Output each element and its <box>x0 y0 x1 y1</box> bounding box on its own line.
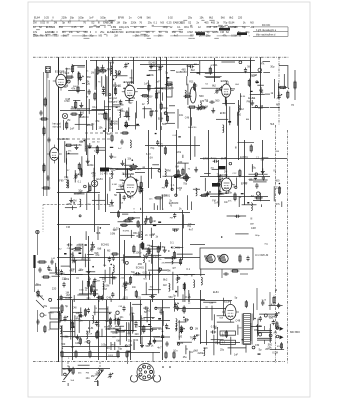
svg-text:2M: 2M <box>233 186 236 188</box>
svg-text:C48: C48 <box>251 226 256 230</box>
svg-text:FM: FM <box>212 201 215 203</box>
svg-text:AM: AM <box>78 269 81 272</box>
svg-text:70p: 70p <box>223 22 228 25</box>
svg-text:6k8: 6k8 <box>145 246 150 250</box>
svg-text:EABC80: EABC80 <box>176 70 187 74</box>
svg-text:FM: FM <box>170 218 173 220</box>
svg-text:EF89: EF89 <box>94 322 100 324</box>
svg-text:0.1: 0.1 <box>170 240 174 244</box>
svg-text:M3: M3 <box>99 35 103 38</box>
svg-text:30p: 30p <box>78 189 83 193</box>
svg-text:47k: 47k <box>95 119 100 123</box>
svg-text:FM: FM <box>43 315 46 317</box>
svg-text:AM: AM <box>163 284 167 287</box>
svg-text:30p: 30p <box>123 22 128 25</box>
svg-text:1nF: 1nF <box>89 17 94 20</box>
svg-text:1nF: 1nF <box>275 324 280 328</box>
svg-text:560: 560 <box>54 35 59 38</box>
svg-text:220: 220 <box>238 17 243 20</box>
svg-text:M3: M3 <box>160 22 164 25</box>
svg-text:30p: 30p <box>270 66 275 69</box>
svg-text:0.5M: 0.5M <box>272 352 278 355</box>
svg-text:6k8: 6k8 <box>194 348 199 352</box>
svg-text:22k 1nF: 22k 1nF <box>110 169 119 171</box>
svg-text:25u: 25u <box>206 35 211 38</box>
svg-text:EF89: EF89 <box>113 31 120 34</box>
svg-text:R31: R31 <box>136 295 141 299</box>
svg-text:III: III <box>98 22 100 25</box>
svg-text:10n: 10n <box>228 191 233 195</box>
svg-text:1013: 1013 <box>108 355 114 357</box>
svg-text:220: 220 <box>178 160 183 164</box>
svg-text:220k: 220k <box>64 278 70 281</box>
svg-text:125: 125 <box>181 22 186 25</box>
svg-text:0.1: 0.1 <box>186 267 190 271</box>
svg-text:0.25: 0.25 <box>167 22 172 25</box>
svg-text:ECH81: ECH81 <box>136 267 145 270</box>
svg-text:C48: C48 <box>75 343 80 345</box>
svg-text:465: 465 <box>211 22 216 25</box>
svg-text:100p: 100p <box>79 290 85 292</box>
svg-text:5k6: 5k6 <box>270 123 275 126</box>
svg-text:R31: R31 <box>189 82 194 84</box>
svg-text:EL84: EL84 <box>176 186 183 190</box>
svg-text:EABC80: EABC80 <box>123 172 135 176</box>
svg-text:0.5M: 0.5M <box>64 101 69 103</box>
svg-text:M3: M3 <box>62 31 66 34</box>
svg-text:4n7: 4n7 <box>174 35 179 38</box>
svg-text:220k: 220k <box>109 205 115 208</box>
svg-text:1nF: 1nF <box>152 219 157 223</box>
svg-text:30p: 30p <box>76 311 81 315</box>
svg-text:EL84: EL84 <box>88 328 94 330</box>
svg-text:EABC80: EABC80 <box>79 116 89 119</box>
svg-text:C48: C48 <box>138 17 143 20</box>
svg-text:560: 560 <box>109 172 114 176</box>
svg-text:EL84: EL84 <box>229 22 235 25</box>
svg-text:1M: 1M <box>195 329 198 331</box>
svg-text:560: 560 <box>215 100 220 103</box>
svg-text:M3: M3 <box>250 22 254 25</box>
svg-text:III: III <box>76 276 78 280</box>
svg-text:bfde nachtscfhes d: bfde nachtscfhes d <box>256 33 276 36</box>
svg-text:8k2: 8k2 <box>163 277 168 281</box>
svg-text:C48: C48 <box>207 26 212 29</box>
svg-text:70p: 70p <box>183 183 188 186</box>
svg-text:ECH81: ECH81 <box>101 244 110 247</box>
svg-text:100p: 100p <box>78 17 84 20</box>
svg-text:FM: FM <box>40 35 44 38</box>
svg-text:FM: FM <box>247 101 251 104</box>
svg-text:220k: 220k <box>131 22 137 25</box>
svg-text:0.02: 0.02 <box>149 234 154 237</box>
svg-text:1M: 1M <box>117 22 120 25</box>
svg-text:0.5M: 0.5M <box>110 234 115 236</box>
svg-text:560: 560 <box>172 31 177 34</box>
svg-text:ECH81: ECH81 <box>123 284 131 286</box>
svg-text:10n: 10n <box>71 268 76 271</box>
svg-text:5k6: 5k6 <box>147 17 152 20</box>
svg-text:III: III <box>111 22 113 25</box>
svg-text:AM: AM <box>175 166 179 169</box>
svg-text:AM: AM <box>49 269 52 272</box>
svg-text:FM: FM <box>167 170 170 173</box>
svg-text:M3: M3 <box>52 26 56 29</box>
svg-text:4n7: 4n7 <box>189 228 194 232</box>
svg-text:EL84: EL84 <box>35 283 42 287</box>
svg-text:5k6: 5k6 <box>221 17 226 20</box>
svg-text:220: 220 <box>135 333 140 336</box>
svg-text:0.02: 0.02 <box>40 22 45 25</box>
svg-text:0.1: 0.1 <box>177 26 181 29</box>
svg-text:EF89: EF89 <box>220 173 228 177</box>
svg-text:R31: R31 <box>213 63 218 67</box>
svg-text:25u: 25u <box>220 349 225 352</box>
svg-text:100p: 100p <box>144 35 150 38</box>
svg-text:AM: AM <box>96 26 100 29</box>
svg-text:5k6: 5k6 <box>63 35 68 38</box>
svg-text:47k: 47k <box>95 253 100 257</box>
svg-text:4:1 OM LM: 4:1 OM LM <box>255 253 269 257</box>
svg-text:4n7: 4n7 <box>157 346 162 350</box>
svg-text:465: 465 <box>213 26 218 29</box>
svg-text:560: 560 <box>275 179 280 183</box>
svg-text:70p: 70p <box>242 26 247 29</box>
svg-text:0.5M: 0.5M <box>112 184 117 186</box>
svg-text:III: III <box>235 145 237 149</box>
svg-text:0.5M: 0.5M <box>95 281 100 283</box>
svg-text:76: 76 <box>190 335 193 339</box>
svg-text:0.1 470: 0.1 470 <box>100 174 108 176</box>
svg-text:III: III <box>250 218 252 221</box>
svg-text:560: 560 <box>199 94 204 98</box>
svg-text:220: 220 <box>52 287 57 291</box>
svg-text:EABC80: EABC80 <box>60 138 70 141</box>
svg-text:FM: FM <box>196 334 200 337</box>
svg-text:EL84: EL84 <box>97 177 104 181</box>
svg-text:AM: AM <box>274 332 278 335</box>
svg-text:FM: FM <box>86 372 89 374</box>
svg-text:AM: AM <box>250 223 253 226</box>
svg-text:ECH81: ECH81 <box>124 80 134 84</box>
svg-text:S2: S2 <box>251 194 255 198</box>
svg-text:1nF: 1nF <box>70 127 75 131</box>
svg-text:0.5M: 0.5M <box>113 333 118 335</box>
svg-text:30p: 30p <box>89 35 94 38</box>
svg-text:stor gnd: stor gnd <box>108 100 118 104</box>
svg-text:EL84: EL84 <box>240 96 246 98</box>
svg-text:25u: 25u <box>100 31 105 34</box>
svg-text:2M: 2M <box>73 199 76 202</box>
svg-text:0.25: 0.25 <box>72 26 77 29</box>
svg-text:0.25: 0.25 <box>44 17 49 20</box>
svg-text:5k6: 5k6 <box>146 31 151 34</box>
svg-text:560: 560 <box>162 122 167 126</box>
svg-text:100p: 100p <box>135 250 141 254</box>
svg-text:10n: 10n <box>179 113 184 117</box>
svg-text:III: III <box>273 168 275 172</box>
svg-text:465: 465 <box>138 263 143 266</box>
svg-text:220k: 220k <box>33 35 39 38</box>
svg-text:30p: 30p <box>70 17 75 20</box>
svg-text:2M: 2M <box>135 35 138 38</box>
svg-text:0.5M: 0.5M <box>98 113 104 116</box>
svg-text:har gnd: har gnd <box>108 96 117 100</box>
svg-text:100p: 100p <box>255 235 261 237</box>
svg-text:ECC85: ECC85 <box>55 69 65 73</box>
svg-text:1M: 1M <box>88 279 91 281</box>
svg-text:b gfh cdesadeghc a: b gfh cdesadeghc a <box>256 30 277 32</box>
svg-text:ECH81: ECH81 <box>123 231 131 233</box>
svg-text:M3: M3 <box>276 104 280 107</box>
svg-text:6k8: 6k8 <box>96 231 101 235</box>
svg-text:EL84: EL84 <box>224 299 231 303</box>
svg-text:25u: 25u <box>82 35 87 38</box>
svg-text:47k: 47k <box>165 84 170 88</box>
svg-text:2M: 2M <box>114 35 117 38</box>
svg-text:ECH81: ECH81 <box>113 83 122 87</box>
svg-text:560: 560 <box>169 296 174 299</box>
svg-text:1nF: 1nF <box>234 353 239 356</box>
svg-text:1M: 1M <box>33 22 36 25</box>
svg-text:EL84: EL84 <box>202 104 209 108</box>
svg-text:1nF: 1nF <box>65 73 70 75</box>
svg-text:AM: AM <box>140 26 144 29</box>
svg-text:15k: 15k <box>267 345 272 349</box>
svg-text:AM: AM <box>106 118 110 122</box>
svg-text:R31: R31 <box>133 232 138 235</box>
svg-text:0.1: 0.1 <box>154 22 158 25</box>
svg-text:70p: 70p <box>131 271 136 274</box>
svg-text:560: 560 <box>59 26 64 29</box>
svg-text:C48: C48 <box>185 117 190 119</box>
svg-text:2M: 2M <box>67 120 70 122</box>
svg-text:0.5M: 0.5M <box>134 31 140 34</box>
svg-text:0.02: 0.02 <box>168 17 173 20</box>
svg-text:EABC80: EABC80 <box>169 202 179 205</box>
svg-text:EF89: EF89 <box>118 17 125 20</box>
svg-text:0.5M: 0.5M <box>187 31 193 34</box>
svg-text:EF89: EF89 <box>48 313 54 315</box>
svg-text:R31: R31 <box>184 26 189 29</box>
svg-text:C12: C12 <box>239 107 244 111</box>
svg-text:EF89: EF89 <box>220 113 226 115</box>
svg-text:560: 560 <box>84 31 89 34</box>
svg-text:EL84: EL84 <box>213 31 219 34</box>
svg-text:R31: R31 <box>158 327 163 331</box>
svg-text:0.5M: 0.5M <box>231 35 237 38</box>
svg-text:1M: 1M <box>175 278 178 281</box>
svg-text:2M: 2M <box>54 22 57 25</box>
svg-text:AM: AM <box>246 118 249 121</box>
svg-text:EF89: EF89 <box>58 181 64 183</box>
svg-text:1nF: 1nF <box>69 31 74 34</box>
svg-text:EABC80: EABC80 <box>188 126 197 129</box>
svg-text:0.5M: 0.5M <box>111 26 117 29</box>
svg-text:6k8: 6k8 <box>97 248 102 251</box>
svg-text:10n: 10n <box>132 286 137 289</box>
svg-text:125: 125 <box>66 202 71 206</box>
svg-text:M3: M3 <box>89 26 93 29</box>
svg-text:220k: 220k <box>198 351 204 355</box>
svg-text:EF89: EF89 <box>221 79 229 83</box>
svg-text:0.02: 0.02 <box>114 227 120 231</box>
svg-text:C48: C48 <box>235 319 240 323</box>
svg-text:100p: 100p <box>100 17 106 20</box>
svg-text:FM: FM <box>220 31 224 34</box>
svg-text:1M: 1M <box>91 72 94 75</box>
svg-text:47k: 47k <box>71 87 76 91</box>
svg-text:0.5M: 0.5M <box>211 324 217 328</box>
svg-text:0.5M: 0.5M <box>251 73 257 77</box>
svg-text:220k: 220k <box>88 163 94 167</box>
svg-text:8k2: 8k2 <box>229 17 234 20</box>
svg-text:1nF: 1nF <box>146 218 151 221</box>
svg-text:25u: 25u <box>99 70 104 74</box>
svg-text:25u: 25u <box>148 22 153 25</box>
svg-text:6k8: 6k8 <box>71 106 76 109</box>
svg-text:DC DC: DC DC <box>262 23 270 27</box>
svg-text:EL84: EL84 <box>213 291 219 294</box>
svg-text:stor gnd: stor gnd <box>53 126 62 129</box>
svg-text:EL84: EL84 <box>87 124 93 127</box>
svg-text:0.25: 0.25 <box>221 156 227 160</box>
svg-text:70p: 70p <box>150 147 155 150</box>
svg-text:100p: 100p <box>163 26 169 29</box>
svg-text:560: 560 <box>119 31 124 34</box>
svg-text:EL84: EL84 <box>152 109 159 113</box>
svg-text:10n: 10n <box>86 377 91 380</box>
svg-text:III: III <box>47 22 49 25</box>
svg-text:FM: FM <box>66 226 70 229</box>
svg-text:MD 800: MD 800 <box>290 330 300 334</box>
svg-text:25u: 25u <box>188 17 193 20</box>
svg-text:2M: 2M <box>196 108 199 111</box>
svg-text:25u: 25u <box>183 356 188 359</box>
svg-text:M3: M3 <box>179 31 183 34</box>
svg-text:8k2: 8k2 <box>191 69 196 72</box>
svg-text:220k: 220k <box>62 17 68 20</box>
svg-text:8k2: 8k2 <box>209 17 214 20</box>
svg-text:220k: 220k <box>163 107 169 110</box>
svg-text:EL84: EL84 <box>34 17 40 20</box>
svg-text:1nF: 1nF <box>88 334 92 336</box>
svg-text:0.25: 0.25 <box>185 295 191 299</box>
svg-text:220k: 220k <box>276 187 282 190</box>
svg-text:5p: 5p <box>259 347 262 351</box>
svg-text:M3: M3 <box>141 317 145 321</box>
svg-text:465: 465 <box>204 22 209 25</box>
svg-text:R7: R7 <box>135 325 139 329</box>
svg-text:560: 560 <box>61 343 66 346</box>
svg-text:1M: 1M <box>158 35 161 38</box>
svg-text:FM: FM <box>162 188 165 190</box>
